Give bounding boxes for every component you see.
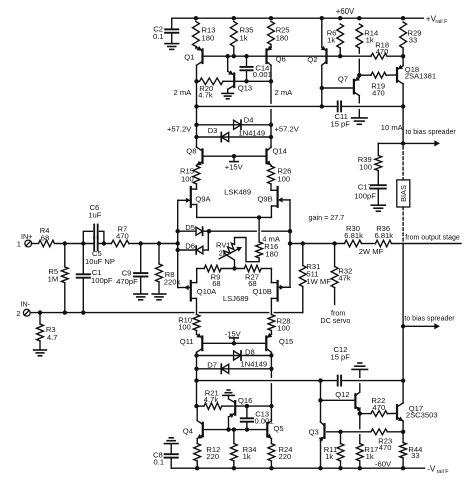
- wire joined sources top pair: [197, 216, 272, 218]
- bias spreader box BIAS: [397, 180, 410, 207]
- transistor Q6: [267, 46, 273, 82]
- wire Q17 emitter: [402, 421, 404, 432]
- label 2W MF: [359, 247, 384, 256]
- wire feedback line: [290, 243, 461, 245]
- svg-text:rail F: rail F: [435, 19, 448, 25]
- resistor R3: [37, 313, 44, 350]
- node left bus long line bottom: [194, 378, 198, 382]
- terminal IN+ 1: [25, 240, 32, 247]
- label R25 180: [276, 26, 290, 43]
- node base rail Q13 emitter: [226, 54, 230, 58]
- node base rail R34: [232, 427, 236, 431]
- diode D6: [178, 231, 209, 254]
- label Q11: [180, 337, 194, 346]
- label to bias spreader bottom: [404, 316, 455, 323]
- wire right bus lower: [270, 356, 272, 407]
- node top rail junction R25: [269, 16, 273, 20]
- svg-text:+15V: +15V: [225, 162, 244, 171]
- svg-text:10 mA: 10 mA: [381, 123, 404, 132]
- label C13 0.001: [255, 410, 274, 426]
- label R4 68: [40, 226, 50, 242]
- node bottom rail R17: [358, 466, 362, 470]
- label C5 10uF NP: [85, 249, 115, 266]
- jfet Q9A: [178, 184, 197, 217]
- node base rail R6: [338, 54, 342, 58]
- label R5 1M: [48, 267, 59, 284]
- arrow to bias spreader bottom: [403, 323, 440, 329]
- label Q14: [273, 147, 287, 156]
- resistor R28: [268, 315, 275, 335]
- svg-text:2 mA: 2 mA: [174, 88, 193, 97]
- svg-text:1k: 1k: [327, 36, 335, 45]
- node Q12 emitter junction: [358, 411, 362, 415]
- diode D3 1N4149: [221, 132, 228, 141]
- node Q17 emitter junction: [401, 430, 405, 434]
- label IN+: [21, 232, 32, 241]
- resistor R32: [331, 244, 338, 305]
- label LSK489: [224, 187, 251, 196]
- wire clamp line to right gate: [209, 230, 290, 232]
- svg-text:4.7: 4.7: [47, 333, 58, 342]
- resistor R22: [371, 411, 397, 417]
- label +Vrail F: [426, 14, 448, 25]
- wire Q7 collector: [358, 96, 360, 118]
- label R21 4.7k: [204, 388, 219, 404]
- svg-text:15 pF: 15 pF: [331, 352, 351, 361]
- label +60V: [336, 7, 355, 16]
- svg-text:4.7k: 4.7k: [198, 90, 213, 99]
- resistor R7: [111, 240, 128, 247]
- wire Q2 emitter to rail: [321, 18, 323, 47]
- wire dashed bias link top: [402, 147, 404, 180]
- wire C12 to Q17 collector: [341, 380, 403, 382]
- wire +60V top rail: [172, 17, 424, 19]
- diode D4 1N4149: [234, 120, 241, 129]
- svg-text:-15V: -15V: [225, 330, 242, 339]
- ground below C2: [165, 44, 179, 50]
- svg-text:Q13: Q13: [238, 84, 252, 93]
- ground above Q12 collector: [352, 363, 367, 369]
- resistor R18: [371, 53, 403, 59]
- node Q3 collector line: [318, 378, 322, 382]
- label Q10A: [197, 287, 217, 296]
- label R7 470: [116, 225, 129, 241]
- node R8 tap: [157, 241, 161, 245]
- node R21 row right bus: [269, 404, 273, 408]
- resistor R34: [231, 430, 238, 469]
- wire Q3 collector bus: [320, 381, 322, 422]
- label R39 100: [358, 155, 372, 171]
- resistor R26: [268, 166, 275, 184]
- resistor R25: [268, 22, 275, 48]
- capacitor C13: [241, 406, 253, 430]
- node Q2 collector Q7 base: [320, 86, 324, 90]
- label R28 100: [277, 316, 291, 332]
- label D8: [245, 348, 255, 357]
- node R20 row right bus: [269, 79, 273, 83]
- label R20 4.7k: [198, 84, 213, 99]
- capacitor C5: [94, 237, 98, 251]
- wire R21 row: [197, 405, 272, 407]
- label R30 6.81k: [344, 224, 363, 240]
- node left gate bus D6: [176, 248, 180, 252]
- svg-text:Q10B: Q10B: [253, 287, 272, 296]
- label +57.2V left: [167, 124, 192, 133]
- wire Q3 emitter to rail: [320, 440, 322, 468]
- resistor R20: [200, 78, 224, 85]
- resistor R27: [244, 265, 261, 272]
- wire R16 feed: [258, 217, 260, 242]
- label +57.2V right: [275, 124, 300, 133]
- node R20 row C14: [244, 79, 248, 83]
- label IN-: [21, 300, 31, 309]
- svg-text:1N4149: 1N4149: [239, 129, 266, 138]
- svg-text:to bias spreader: to bias spreader: [406, 129, 457, 136]
- wire IN+ to R4: [32, 243, 39, 245]
- svg-text:1k: 1k: [366, 36, 374, 45]
- node sources R16 tap: [257, 215, 261, 219]
- resistor R13: [193, 22, 200, 49]
- label Q16: [238, 396, 252, 405]
- wire Q18 collector: [402, 84, 404, 107]
- resistor R12: [194, 444, 201, 469]
- resistor R44: [400, 432, 407, 468]
- label C17 100pF: [354, 182, 376, 200]
- svg-text:1uF: 1uF: [88, 211, 101, 220]
- label R31 511 1W MF: [306, 262, 331, 286]
- node R3 tap: [38, 310, 42, 314]
- transistor Q16: [229, 396, 236, 430]
- node base rail C14: [244, 54, 248, 58]
- svg-text:D5: D5: [185, 223, 195, 232]
- node bias arrow bottom: [401, 324, 405, 328]
- svg-text:2W MF: 2W MF: [359, 247, 384, 256]
- svg-text:2SA1381: 2SA1381: [405, 72, 436, 81]
- wire D3 row: [197, 136, 272, 138]
- label R29 33: [408, 28, 422, 44]
- label 10 mA: [381, 123, 404, 132]
- label D7: [207, 360, 217, 369]
- resistor R5: [61, 244, 68, 313]
- svg-text:C17: C17: [358, 182, 372, 191]
- wire R7 to gate bus: [129, 243, 178, 245]
- power flag -15V: [230, 338, 239, 343]
- wire Q7 base: [322, 87, 353, 89]
- node left bus D3: [194, 135, 198, 139]
- label to bias spreader top: [406, 129, 457, 136]
- wire left bus lower: [196, 356, 198, 407]
- svg-text:Q15: Q15: [279, 337, 293, 346]
- capacitor C14: [240, 56, 252, 81]
- label R10 100: [178, 315, 192, 331]
- svg-text:1M: 1M: [48, 275, 59, 284]
- svg-text:100: 100: [181, 174, 194, 183]
- capacitor C1: [77, 244, 90, 313]
- wire D4 row: [197, 124, 272, 126]
- wire Q12 collector: [359, 370, 361, 392]
- label from output stage: [405, 234, 460, 241]
- wire R9-R27 row: [197, 268, 272, 270]
- wire Q2 base rail: [267, 55, 372, 57]
- svg-text:IN-: IN-: [21, 300, 31, 309]
- label D6: [185, 241, 195, 250]
- label -60V: [375, 460, 392, 469]
- node Q18 collector line: [401, 104, 405, 108]
- node R5 bottom: [63, 310, 67, 314]
- node bottom rail R24: [269, 466, 273, 470]
- label C1 100pF: [91, 268, 113, 285]
- wire Q8-Q14 base rail: [203, 155, 267, 157]
- wire left bus upper: [196, 81, 198, 146]
- capacitor C2: [165, 18, 178, 43]
- label Q15: [279, 337, 293, 346]
- capacitor C8: [165, 444, 178, 468]
- label C9 470pF: [116, 269, 138, 286]
- wire Q3 base row: [327, 431, 403, 433]
- wire VAS output bus bottom: [402, 244, 404, 381]
- node R31 tap: [301, 241, 305, 245]
- label C11 15 pF: [331, 112, 351, 129]
- svg-text:+57.2V: +57.2V: [275, 124, 300, 133]
- svg-text:6.81k: 6.81k: [375, 231, 394, 240]
- label R14 1k: [364, 28, 378, 44]
- wire Q2 collector bus: [321, 65, 323, 106]
- node left bus D7: [194, 367, 198, 371]
- label Q2: [307, 55, 317, 64]
- node right bus D3: [269, 135, 273, 139]
- transistor Q8: [197, 147, 203, 166]
- resistor R4: [39, 240, 55, 247]
- wire Q11-Q15 base rail: [202, 342, 266, 344]
- svg-text:100pF: 100pF: [91, 276, 113, 285]
- svg-text:33: 33: [409, 36, 417, 45]
- resistor R11: [337, 432, 344, 468]
- svg-text:Q14: Q14: [273, 147, 287, 156]
- wire R19 row: [359, 74, 371, 76]
- label 2 mA right: [275, 88, 294, 97]
- wire dashed bias link bottom: [402, 207, 404, 241]
- node C9 tap: [139, 241, 143, 245]
- jfet Q9B: [271, 184, 290, 217]
- svg-text:to bias spreader: to bias spreader: [404, 316, 455, 323]
- label 2: [16, 309, 20, 318]
- transistor Q3: [319, 422, 325, 442]
- svg-text:D4: D4: [244, 116, 254, 125]
- label C2 0.1: [153, 24, 164, 41]
- svg-text:220: 220: [206, 452, 219, 461]
- label R15 100: [180, 167, 194, 184]
- svg-text:1W MF: 1W MF: [306, 277, 331, 286]
- label R9 68: [211, 272, 221, 288]
- svg-text:470: 470: [379, 443, 392, 452]
- label Q4: [183, 427, 193, 436]
- svg-text:gain = 27.7: gain = 27.7: [309, 213, 345, 222]
- transistor Q2: [321, 46, 327, 65]
- wire VAS output bus: [402, 106, 404, 143]
- svg-text:Q12: Q12: [335, 390, 349, 399]
- resistor R35: [230, 22, 237, 57]
- svg-text:Q4: Q4: [183, 427, 193, 436]
- svg-text:470: 470: [373, 403, 386, 412]
- svg-text:220: 220: [279, 452, 292, 461]
- label R8 220k: [164, 270, 181, 286]
- svg-text:100pF: 100pF: [354, 192, 376, 201]
- resistor R30: [345, 240, 362, 247]
- node R20 row left bus: [194, 79, 198, 83]
- label R6 1k: [327, 28, 337, 44]
- transistor Q18: [397, 65, 403, 84]
- svg-text:Q2: Q2: [307, 55, 317, 64]
- svg-text:IN+: IN+: [21, 232, 32, 241]
- node R32 tap: [332, 241, 336, 245]
- svg-text:DC servo: DC servo: [320, 316, 350, 325]
- label +15V: [225, 162, 244, 171]
- node bottom rail Q3 emitter: [318, 466, 322, 470]
- node R5 tap: [63, 241, 67, 245]
- label D4: [244, 116, 254, 125]
- resistor R14: [356, 24, 363, 75]
- svg-text:Q11: Q11: [180, 337, 194, 346]
- label -Vrail F: [427, 464, 449, 475]
- svg-text:1: 1: [17, 240, 21, 249]
- node +15V tap: [232, 154, 236, 158]
- wire R39 feed: [378, 143, 403, 155]
- svg-text:0.1: 0.1: [154, 457, 165, 466]
- capacitor C9: [134, 244, 147, 294]
- svg-text:180: 180: [265, 249, 278, 258]
- label 2 mA left: [174, 88, 193, 97]
- svg-text:Q8: Q8: [186, 147, 196, 156]
- node right bus D4: [269, 123, 273, 127]
- resistor R24: [268, 444, 275, 469]
- capacitor C6 branch: [83, 225, 104, 244]
- svg-text:LSK489: LSK489: [224, 187, 251, 196]
- svg-text:Q3: Q3: [309, 428, 319, 437]
- label LSJ689: [223, 294, 249, 303]
- wire Q1-Q6 base rail: [203, 55, 267, 57]
- svg-text:68: 68: [41, 233, 49, 242]
- node Q18 emitter junction: [401, 54, 405, 58]
- node left gate bus input: [176, 241, 180, 245]
- svg-text:-V: -V: [427, 464, 436, 473]
- label Q8: [186, 147, 196, 156]
- transistor Q17: [397, 403, 403, 421]
- wire Q17 collector: [402, 381, 404, 403]
- wire C11 to Q18 collector: [341, 105, 403, 107]
- node bottom rail R34: [232, 466, 236, 470]
- svg-text:+57.2V: +57.2V: [167, 124, 192, 133]
- ground below R3: [34, 350, 47, 356]
- wire C5 to R7: [98, 243, 112, 245]
- node top rail junction R35: [232, 16, 236, 20]
- wire IPS output line bottom: [197, 380, 338, 382]
- svg-text:470: 470: [376, 47, 389, 56]
- label D5: [185, 223, 195, 232]
- svg-text:1N4149: 1N4149: [241, 359, 268, 368]
- transistor Q13: [228, 56, 235, 93]
- label R17 1k: [364, 445, 378, 461]
- capacitor C12: [338, 376, 341, 386]
- label Q1: [184, 53, 194, 62]
- arrow to bias spreader top: [403, 140, 440, 146]
- transistor Q1: [197, 46, 203, 81]
- node base rail C13: [245, 427, 249, 431]
- label R36 6.81k: [375, 224, 394, 240]
- node left bus D8: [194, 353, 198, 357]
- node VAS input Q2 collector: [320, 104, 324, 108]
- node Q17 collector line: [401, 378, 405, 382]
- resistor R31: [299, 244, 306, 313]
- node left bus long line: [194, 104, 198, 108]
- svg-text:1k: 1k: [366, 452, 374, 461]
- svg-text:2SC3503: 2SC3503: [406, 411, 438, 420]
- wire IN- line: [30, 312, 303, 314]
- svg-text:2 mA: 2 mA: [275, 88, 294, 97]
- svg-text:470: 470: [116, 232, 129, 241]
- label R35 1k: [240, 26, 254, 43]
- wire Q18 emitter: [402, 56, 404, 66]
- resistor R29: [400, 22, 407, 56]
- trimpot RV1: [219, 243, 242, 268]
- svg-text:180: 180: [276, 34, 289, 43]
- label from DC servo: [320, 309, 350, 326]
- svg-text:33: 33: [411, 451, 419, 460]
- svg-text:Q9B: Q9B: [258, 195, 273, 204]
- svg-text:10uF NP: 10uF NP: [85, 257, 115, 266]
- label R13 180: [202, 26, 216, 43]
- svg-text:D3: D3: [208, 126, 218, 135]
- resistor R36: [376, 240, 392, 247]
- diode D8 1N4149: [234, 351, 241, 360]
- node top rail junction R6: [338, 16, 342, 20]
- wire R20 row: [197, 80, 272, 82]
- terminal IN- 2: [23, 309, 30, 316]
- svg-text:+60V: +60V: [336, 7, 355, 16]
- label Q17 2SC3503: [406, 404, 438, 420]
- ground above Q16: [223, 390, 234, 395]
- node bottom rail R12: [195, 466, 199, 470]
- svg-text:100: 100: [277, 174, 290, 183]
- node right bus D8: [269, 353, 273, 357]
- transistor Q14: [266, 147, 271, 166]
- wire D8 row: [197, 355, 272, 357]
- resistor R39: [375, 156, 382, 186]
- label Q7: [338, 74, 348, 83]
- node clamp diodes junction: [207, 229, 211, 233]
- svg-text:1k: 1k: [243, 452, 251, 461]
- label 4 mA: [262, 234, 281, 243]
- svg-text:180: 180: [202, 34, 215, 43]
- resistor R15: [193, 166, 200, 184]
- label RV1 2k: [216, 240, 231, 257]
- label Q13: [238, 84, 252, 93]
- svg-text:100: 100: [359, 162, 372, 171]
- transistor Q5: [266, 406, 271, 443]
- wire -60V bottom rail: [171, 467, 424, 469]
- label R24 220: [279, 445, 293, 461]
- ground Q7 collector: [352, 118, 367, 124]
- wire right bus upper: [270, 81, 272, 146]
- label R11 1k: [324, 445, 337, 461]
- label C8 0.1: [153, 450, 164, 466]
- transistor Q11: [196, 333, 202, 356]
- jfet Q10A: [178, 269, 197, 315]
- node base rail R35: [232, 54, 236, 58]
- label Q9A: [195, 195, 211, 204]
- node Q7 emitter junction: [357, 73, 361, 77]
- svg-text:D8: D8: [245, 348, 255, 357]
- node base rail Q16 emitter: [226, 427, 230, 431]
